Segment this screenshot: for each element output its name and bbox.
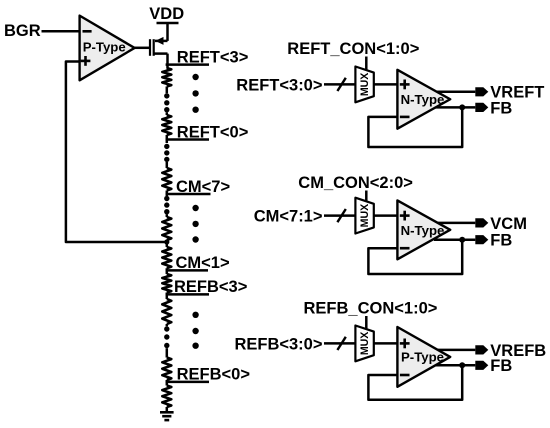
svg-text:VDD: VDD [149, 5, 184, 23]
output arrowhead VCM [475, 218, 488, 227]
tap line CM<1> [166, 269, 208, 272]
junction dot FB feedback [459, 362, 465, 368]
U1 inverting input - sign [83, 30, 92, 33]
wire U1 output to M1 gate [135, 47, 150, 50]
svg-text:CM<7:1>: CM<7:1> [254, 208, 323, 226]
wire U3 output to VCM [436, 222, 475, 225]
wire MUX2 to U3 + input [374, 214, 398, 217]
output arrowhead VREFB [475, 345, 488, 354]
wire R3 through CM<7> tap [166, 191, 169, 197]
wire U3 output to FB [434, 238, 475, 241]
node mid-ladder junction wire [166, 240, 169, 247]
svg-text:CM<1>: CM<1> [176, 254, 230, 272]
transistor M1 source wire with arrow [155, 37, 168, 45]
tap line REFB<0> [166, 381, 209, 384]
wire R5 through CM<1> tap [166, 268, 169, 274]
label FB [490, 99, 512, 117]
label CM<1> [176, 254, 230, 272]
output arrowhead FB [475, 235, 488, 244]
label REFT<0> [177, 123, 249, 141]
label VREFB [490, 342, 546, 360]
junction dot FB feedback [459, 237, 465, 243]
U3 - input sign [400, 247, 410, 250]
transistor M1 PMOS gate bar [149, 39, 151, 56]
junction dot mid-ladder tap [164, 239, 169, 244]
ellipsis dots REFT range [192, 74, 198, 113]
bus slash on REFT<3:0> wire [337, 78, 345, 91]
resistor R9 [162, 386, 171, 408]
wire REFB<3:0> to MUX [324, 342, 355, 345]
op-amp U1 P-Type [80, 16, 135, 81]
output arrowhead FB [475, 103, 488, 112]
wire R2 through REFT<0> tap [166, 135, 169, 143]
tap line REFT<3> [166, 63, 209, 66]
wire R6 through REFB<3> tap [166, 293, 169, 300]
wire feedback to U2 - input [368, 107, 462, 147]
svg-text:FB: FB [490, 357, 512, 375]
power VDD bar [157, 22, 179, 25]
svg-text:MUX: MUX [359, 204, 371, 228]
wire U2 output to FB [434, 106, 475, 109]
svg-text:CM<7>: CM<7> [176, 178, 230, 196]
ladder continuation dots [164, 326, 169, 348]
U4 + input sign [400, 339, 410, 349]
mux MUX2 [355, 198, 373, 234]
label REFT<3> [177, 48, 249, 66]
wire R9 to ground [166, 407, 169, 412]
svg-text:REFB_CON<1:0>: REFB_CON<1:0> [304, 300, 438, 318]
svg-text:REFT<0>: REFT<0> [177, 123, 249, 141]
wire R7 to dots [166, 324, 169, 326]
wire REFB_CON<1:0> to MUX select [365, 316, 368, 329]
resistor R5 [162, 247, 171, 268]
svg-text:FB: FB [490, 232, 512, 250]
wire REFT<3:0> to MUX [324, 83, 355, 86]
ground [160, 412, 174, 420]
wire MUX3 to U4 + input [374, 342, 398, 345]
svg-text:P-Type: P-Type [83, 40, 126, 55]
wire R8 through REFB<0> tap [166, 380, 169, 386]
label REFB<3:0> input bus [234, 335, 322, 353]
mux MUX1 [355, 67, 373, 103]
label FB [490, 232, 512, 250]
label CM<7:1> input bus [254, 208, 323, 226]
wire CM_CON<2:0> to MUX select [365, 191, 368, 202]
op-amp U4 P-Type [397, 327, 450, 387]
svg-text:REFB<3>: REFB<3> [174, 278, 247, 296]
transistor M1 PMOS channel bar [153, 39, 155, 56]
resistor R1 [162, 68, 171, 87]
resistor R7 [162, 299, 171, 324]
U4 - input sign [400, 374, 410, 377]
svg-text:REFT<3>: REFT<3> [177, 48, 249, 66]
label REFB<3> [174, 278, 247, 296]
U3 + input sign [400, 211, 410, 221]
U2 - input sign [400, 116, 410, 119]
node BGR input label [4, 22, 41, 40]
wire U4 output to VREFB [436, 349, 475, 352]
ladder continuation dots [164, 144, 169, 162]
wire U1 + input feedback from ladder mid tap [66, 62, 167, 243]
svg-text:MUX: MUX [359, 332, 371, 356]
label CM_CON<2:0> control bus [298, 174, 413, 192]
U1 non-inverting input + sign [81, 56, 91, 66]
svg-text:REFB<0>: REFB<0> [177, 366, 250, 384]
bus slash on REFB<3:0> wire [337, 337, 345, 350]
resistor R4 [162, 217, 171, 240]
wire MUX1 to U2 + input [374, 83, 398, 86]
wire dots to R8 [166, 348, 169, 357]
resistor R2 [162, 115, 171, 135]
tap line REFT<0> [166, 138, 209, 141]
wire feedback to U3 - input [368, 240, 462, 274]
svg-text:MUX: MUX [359, 73, 371, 97]
label VCM [490, 215, 527, 233]
label REFT_CON<1:0> control bus [287, 40, 419, 58]
power VDD label [149, 5, 184, 23]
wire dots to R3 [166, 162, 169, 168]
ladder continuation dots [164, 196, 169, 215]
transistor M1 drain wire [154, 52, 168, 55]
wire dots to R2 [166, 112, 169, 115]
ladder continuation dots [164, 93, 169, 112]
wire REFT_CON<1:0> to MUX select [365, 57, 368, 71]
wire CM<7:1> to MUX [324, 214, 355, 217]
op-amp U2 N-Type [397, 70, 450, 129]
op-amp U3 N-Type [397, 200, 450, 259]
wire R1 to dots [166, 87, 169, 94]
wire BGR to op-amp U1 inverting input [42, 30, 80, 33]
svg-text:N-Type: N-Type [401, 223, 445, 238]
svg-text:REFB<3:0>: REFB<3:0> [234, 335, 322, 353]
svg-text:VCM: VCM [490, 215, 527, 233]
svg-text:N-Type: N-Type [401, 92, 445, 107]
svg-text:REFT_CON<1:0>: REFT_CON<1:0> [287, 40, 419, 58]
wire dots to R4 [166, 214, 169, 217]
ellipsis dots CM range [192, 205, 198, 243]
resistor R3 [162, 168, 171, 191]
U2 + input sign [400, 80, 410, 90]
label REFB_CON<1:0> control bus [304, 300, 438, 318]
resistor R8 [162, 358, 171, 381]
svg-text:CM_CON<2:0>: CM_CON<2:0> [298, 174, 413, 192]
mux MUX3 [355, 326, 373, 362]
label FB [490, 357, 512, 375]
label REFT<3:0> input bus [236, 76, 322, 94]
svg-text:FB: FB [490, 99, 512, 117]
tap line CM<7> [166, 193, 211, 196]
bus slash on CM<7:1> wire [337, 209, 345, 222]
resistor R6 [162, 274, 171, 293]
label CM<7> [176, 178, 230, 196]
label REFB<0> [177, 366, 250, 384]
wire VDD to M1 source [166, 23, 169, 41]
wire U2 output to VREFT [436, 91, 475, 94]
wire U4 output to FB [434, 364, 475, 367]
tap line REFB<3> [166, 293, 209, 296]
svg-text:BGR: BGR [4, 22, 41, 40]
junction dot FB feedback [459, 104, 465, 110]
wire feedback to U4 - input [368, 365, 462, 400]
output arrowhead FB [475, 361, 488, 370]
label VREFT [490, 84, 544, 102]
wire M1 drain to ladder top [166, 54, 169, 69]
ellipsis dots REFB range [192, 312, 198, 349]
svg-text:REFT<3:0>: REFT<3:0> [236, 76, 322, 94]
svg-text:P-Type: P-Type [401, 350, 444, 365]
output arrowhead VREFT [475, 87, 488, 96]
